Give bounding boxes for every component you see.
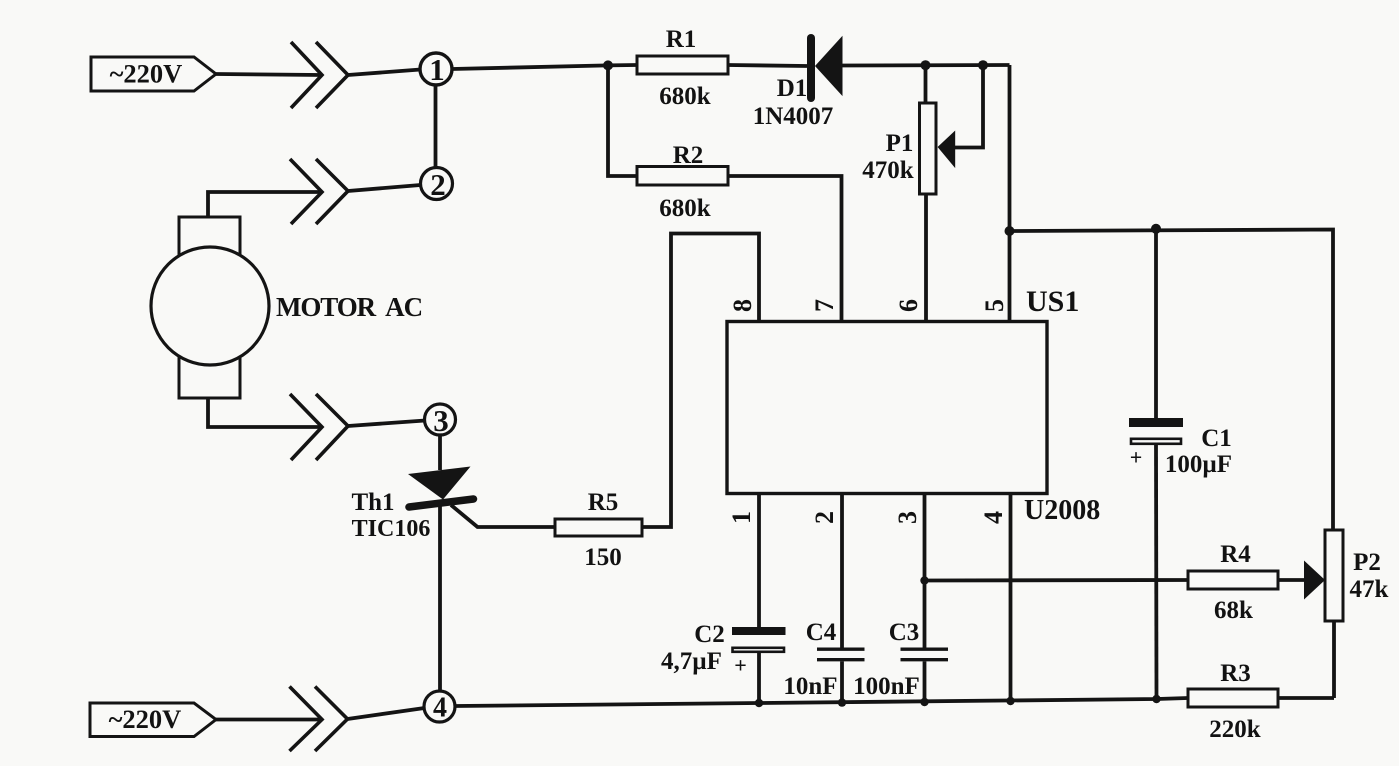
svg-text:+: + (1130, 445, 1143, 470)
svg-text:2: 2 (810, 511, 839, 524)
svg-text:R3: R3 (1220, 660, 1251, 687)
svg-text:C1: C1 (1201, 425, 1232, 452)
wire top-right corner down to pin 5 (1008, 65, 1012, 322)
svg-text:~220V: ~220V (110, 59, 183, 89)
node 3 (425, 403, 456, 438)
svg-text:470k: 470k (862, 157, 914, 184)
svg-text:100nF: 100nF (853, 673, 920, 700)
bottom rail (456, 698, 1189, 706)
svg-text:P1: P1 (886, 130, 914, 157)
wire R1 to D1 (728, 65, 807, 66)
svg-text:680k: 680k (659, 83, 711, 110)
junction dot pin3 wire (920, 576, 928, 584)
wire connector to node 2 (348, 185, 421, 191)
wire node 1 to R1 junction (452, 65, 608, 69)
svg-text:5: 5 (980, 299, 1009, 312)
node 4 (424, 691, 455, 724)
svg-text:1: 1 (727, 511, 756, 524)
svg-text:TIC106: TIC106 (352, 516, 431, 542)
svg-text:MOTOR AC: MOTOR AC (276, 292, 422, 322)
svg-text:~220V: ~220V (109, 704, 182, 734)
wire R3 right to P2 bottom (1278, 696, 1334, 700)
svg-text:U2008: U2008 (1024, 495, 1100, 526)
mains terminal tag ~220V top (91, 57, 216, 91)
junction dot C1 top (1151, 224, 1161, 234)
svg-text:3: 3 (433, 403, 449, 438)
node 1 (420, 52, 452, 87)
pin 4 lead (1009, 494, 1013, 704)
svg-text:1N4007: 1N4007 (753, 103, 834, 130)
svg-text:10nF: 10nF (783, 673, 837, 700)
connector chevron pair (node 4) (290, 687, 348, 752)
svg-text:47k: 47k (1350, 576, 1389, 603)
svg-text:8: 8 (728, 299, 757, 312)
resistor R5 (555, 489, 642, 571)
svg-text:R5: R5 (588, 489, 619, 516)
supply rail to P2 (1010, 230, 1334, 531)
svg-text:C4: C4 (806, 619, 837, 646)
svg-text:7: 7 (810, 299, 839, 312)
wire connector to node 3 (348, 421, 425, 427)
resistor R4 (1188, 541, 1278, 624)
wire motor top lead (208, 192, 322, 217)
IC U2008 box (727, 322, 1047, 494)
svg-text:US1: US1 (1026, 285, 1079, 318)
wire connector to node 4 (348, 708, 425, 719)
svg-text:Th1: Th1 (351, 489, 394, 516)
junction dot C2 bottom (755, 699, 763, 707)
svg-text:+: + (734, 653, 747, 678)
svg-text:R4: R4 (1220, 541, 1251, 568)
wire R5 to pin 8 (642, 234, 759, 528)
junction dot R1/R2 (603, 60, 613, 70)
svg-text:220k: 220k (1209, 716, 1261, 743)
wire node 3 to thyristor anode (438, 435, 442, 470)
svg-text:R1: R1 (666, 26, 697, 53)
svg-text:P2: P2 (1353, 549, 1381, 576)
resistor R2 (637, 142, 728, 222)
potentiometer P2 47k (1304, 530, 1389, 698)
junction dot supply rail (1005, 226, 1015, 236)
capacitor C1 100uF (1129, 229, 1232, 699)
svg-text:C3: C3 (889, 619, 920, 646)
wire tag to connector top (216, 74, 322, 75)
junction dot C3 bottom (920, 698, 928, 706)
junction dot P1 top (921, 60, 931, 70)
wire R2 to pin 7 (728, 176, 842, 322)
svg-text:100µF: 100µF (1165, 451, 1232, 478)
mains terminal tag ~220V bottom (90, 703, 216, 737)
junction dot C4 bottom (838, 698, 846, 706)
svg-text:3: 3 (893, 511, 922, 524)
svg-text:68k: 68k (1214, 597, 1253, 624)
diode D1 1N4007 (753, 36, 843, 130)
junction dot pin4 bottom (1006, 697, 1014, 705)
capacitor C3 100nF (853, 494, 948, 704)
svg-text:C2: C2 (694, 621, 725, 648)
thyristor Th1 TIC106 (351, 467, 555, 692)
svg-text:6: 6 (894, 299, 923, 312)
connector chevron pair (node 1) (291, 42, 348, 108)
wire junction down to R2 (608, 65, 637, 176)
wire node1-node2 vertical (434, 85, 438, 168)
wire tag to connector bottom (216, 718, 322, 722)
wire R4 to P2 wiper (1278, 578, 1305, 582)
svg-text:D1: D1 (777, 75, 808, 102)
resistor R1 (637, 26, 728, 110)
potentiometer P1 470k (862, 65, 983, 322)
svg-text:1: 1 (429, 52, 445, 87)
resistor R3 (1188, 660, 1278, 743)
svg-text:4: 4 (979, 511, 1008, 524)
svg-text:4: 4 (433, 693, 447, 724)
capacitor C4 10nF (783, 494, 864, 704)
junction dot C1 bottom (1152, 695, 1160, 703)
wire junction to R1 (608, 63, 637, 67)
connector chevron pair (node 3) (290, 394, 348, 460)
wire motor bottom lead (208, 398, 322, 427)
capacitor C2 4,7uF (661, 494, 785, 704)
svg-text:R2: R2 (673, 142, 704, 169)
connector chevron pair (node 2) (290, 159, 348, 224)
svg-text:4,7µF: 4,7µF (661, 648, 722, 675)
wire pin3 to R4 (925, 578, 1189, 582)
svg-text:2: 2 (430, 167, 446, 202)
wire connector to node 1 (348, 70, 421, 76)
svg-text:680k: 680k (659, 195, 711, 222)
svg-text:150: 150 (584, 544, 622, 571)
node 2 (421, 167, 453, 202)
junction dot P1 wiper top (978, 60, 988, 70)
wire D1 to pin5 corner (843, 63, 1010, 67)
motor AC (151, 217, 422, 398)
